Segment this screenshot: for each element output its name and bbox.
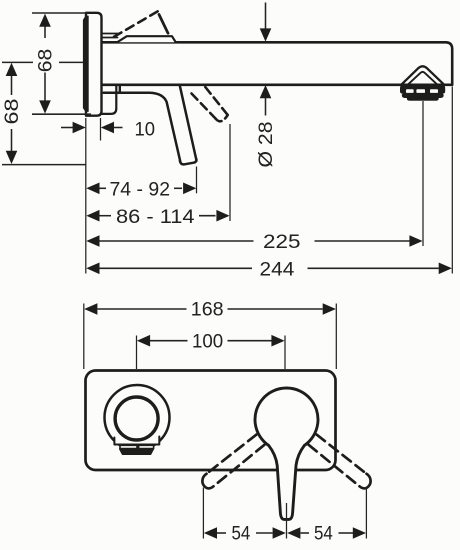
plate back dark band bbox=[83, 16, 88, 112]
dim 68 inner ticks bbox=[32, 12, 88, 14]
dim 10 lines bbox=[61, 127, 73, 129]
svg-text:86 - 114: 86 - 114 bbox=[116, 207, 195, 228]
dim 86-114 line bbox=[99, 215, 111, 217]
extension plate face bbox=[100, 118, 102, 141]
aerator tent profile bbox=[402, 66, 444, 84]
lever hinge step bbox=[119, 86, 121, 93]
aerator ring bbox=[400, 85, 444, 93]
aerator bucket bbox=[114, 437, 159, 445]
svg-text:68: 68 bbox=[2, 99, 23, 125]
dim 244 line bbox=[99, 267, 252, 269]
dim 100 line bbox=[150, 340, 188, 342]
extension wall line bbox=[85, 118, 87, 274]
dim 68 outer line bbox=[11, 75, 13, 95]
extension lever tip bbox=[196, 167, 198, 194]
spout side view bbox=[102, 42, 453, 85]
valve body under spout bbox=[102, 85, 117, 114]
dia28 top line bbox=[265, 3, 267, 29]
handle swung right dashed bbox=[317, 435, 367, 474]
svg-text:10: 10 bbox=[135, 120, 156, 141]
svg-text:54: 54 bbox=[314, 524, 333, 545]
extension 54 center bbox=[286, 503, 288, 539]
extension spout end bbox=[451, 87, 453, 274]
dim 168 line bbox=[98, 308, 187, 310]
dim 68 outer ticks bbox=[2, 61, 33, 63]
svg-text:74 - 92: 74 - 92 bbox=[110, 180, 171, 201]
spout outlet outer circle bbox=[105, 385, 170, 450]
dim 54 right line bbox=[301, 532, 310, 534]
lever side view bbox=[104, 93, 181, 162]
swung lever dashed side view bbox=[192, 94, 216, 119]
extension aerator center bbox=[422, 101, 424, 246]
svg-text:54: 54 bbox=[232, 524, 251, 545]
svg-text:225: 225 bbox=[263, 232, 301, 253]
aerator dark trapezoid bbox=[119, 449, 154, 455]
svg-text:100: 100 bbox=[192, 332, 223, 353]
arrowheads side view bbox=[39, 14, 51, 27]
dim 74-92 line bbox=[99, 187, 106, 189]
closed lever on spout top bbox=[102, 33, 120, 35]
dimensions front view bbox=[98, 309, 354, 533]
extension 168 right bbox=[335, 304, 337, 370]
extension 168 left bbox=[83, 304, 85, 370]
svg-text:244: 244 bbox=[260, 260, 295, 281]
dia28 bottom line bbox=[265, 98, 267, 116]
arrowheads front view bbox=[84, 303, 97, 315]
extension swung lever tip bbox=[229, 124, 231, 221]
front plate bbox=[86, 371, 336, 471]
handle swung left dashed bbox=[207, 435, 257, 474]
raised lever dashed bbox=[114, 11, 158, 37]
dim 54 left line bbox=[217, 532, 226, 534]
dim 225 line bbox=[99, 240, 254, 242]
aerator slot rects bbox=[120, 445, 154, 448]
extension 100 left bbox=[136, 336, 138, 370]
wall plate side view bbox=[86, 13, 102, 116]
svg-text:168: 168 bbox=[191, 300, 224, 321]
handle knob and stem bbox=[255, 388, 318, 519]
svg-text:68: 68 bbox=[36, 49, 57, 73]
extension 54 left bbox=[202, 488, 204, 539]
extension 100 right bbox=[284, 336, 286, 370]
dim 68 inner line bbox=[44, 27, 46, 39]
svg-text:Ø 28: Ø 28 bbox=[256, 122, 277, 168]
extension 54 right bbox=[365, 488, 367, 539]
spout outlet inner circle bbox=[115, 397, 158, 440]
